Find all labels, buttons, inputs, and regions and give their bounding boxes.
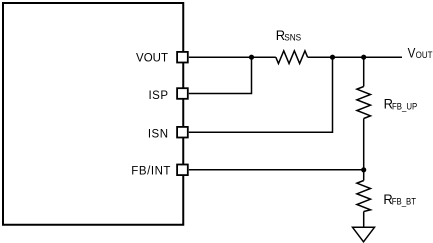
wire FB/INT to node D: [189, 169, 364, 171]
resistor RFB_BT: [357, 181, 371, 212]
junction node A (ISP tap): [249, 55, 254, 60]
wire VOUT pin to RSNS: [189, 56, 276, 58]
value label RFB_BT: [383, 192, 416, 208]
svg-text:FB/INT: FB/INT: [131, 166, 171, 178]
wire RSNS right to VOUT net: [308, 56, 402, 58]
junction node C (RFB_UP top): [361, 55, 366, 60]
pin ISP: [177, 88, 188, 99]
pin VOUT: [177, 52, 188, 63]
resistor RSNS: [276, 51, 308, 64]
value label RFB_UP: [384, 96, 418, 112]
wire RFB_BT to ground: [363, 212, 365, 228]
svg-text:OUT: OUT: [416, 50, 433, 61]
net label VOUT: [408, 44, 433, 60]
resistor RFB_UP: [357, 87, 371, 119]
wire node C down to RFB_UP: [363, 57, 365, 86]
svg-text:SNS: SNS: [284, 32, 301, 42]
pin ISN: [177, 127, 188, 138]
svg-text:ISN: ISN: [148, 129, 169, 141]
op-amp U1 (IC body rectangle): [3, 3, 183, 225]
svg-text:FB_BT: FB_BT: [392, 196, 416, 207]
svg-text:FB_UP: FB_UP: [392, 101, 418, 112]
svg-text:ISP: ISP: [148, 90, 168, 102]
junction node B (ISN tap): [330, 55, 335, 60]
svg-text:VOUT: VOUT: [136, 53, 168, 65]
ground: [353, 227, 375, 242]
wire ISP to node A: [189, 57, 252, 93]
svg-text:V: V: [408, 44, 416, 60]
junction node D (feedback tap): [361, 167, 366, 172]
wire ISN to node B: [189, 57, 333, 132]
wire RFB_UP to node D: [363, 119, 365, 181]
value label RSNS: [276, 27, 302, 43]
pin FB/INT: [177, 165, 188, 176]
